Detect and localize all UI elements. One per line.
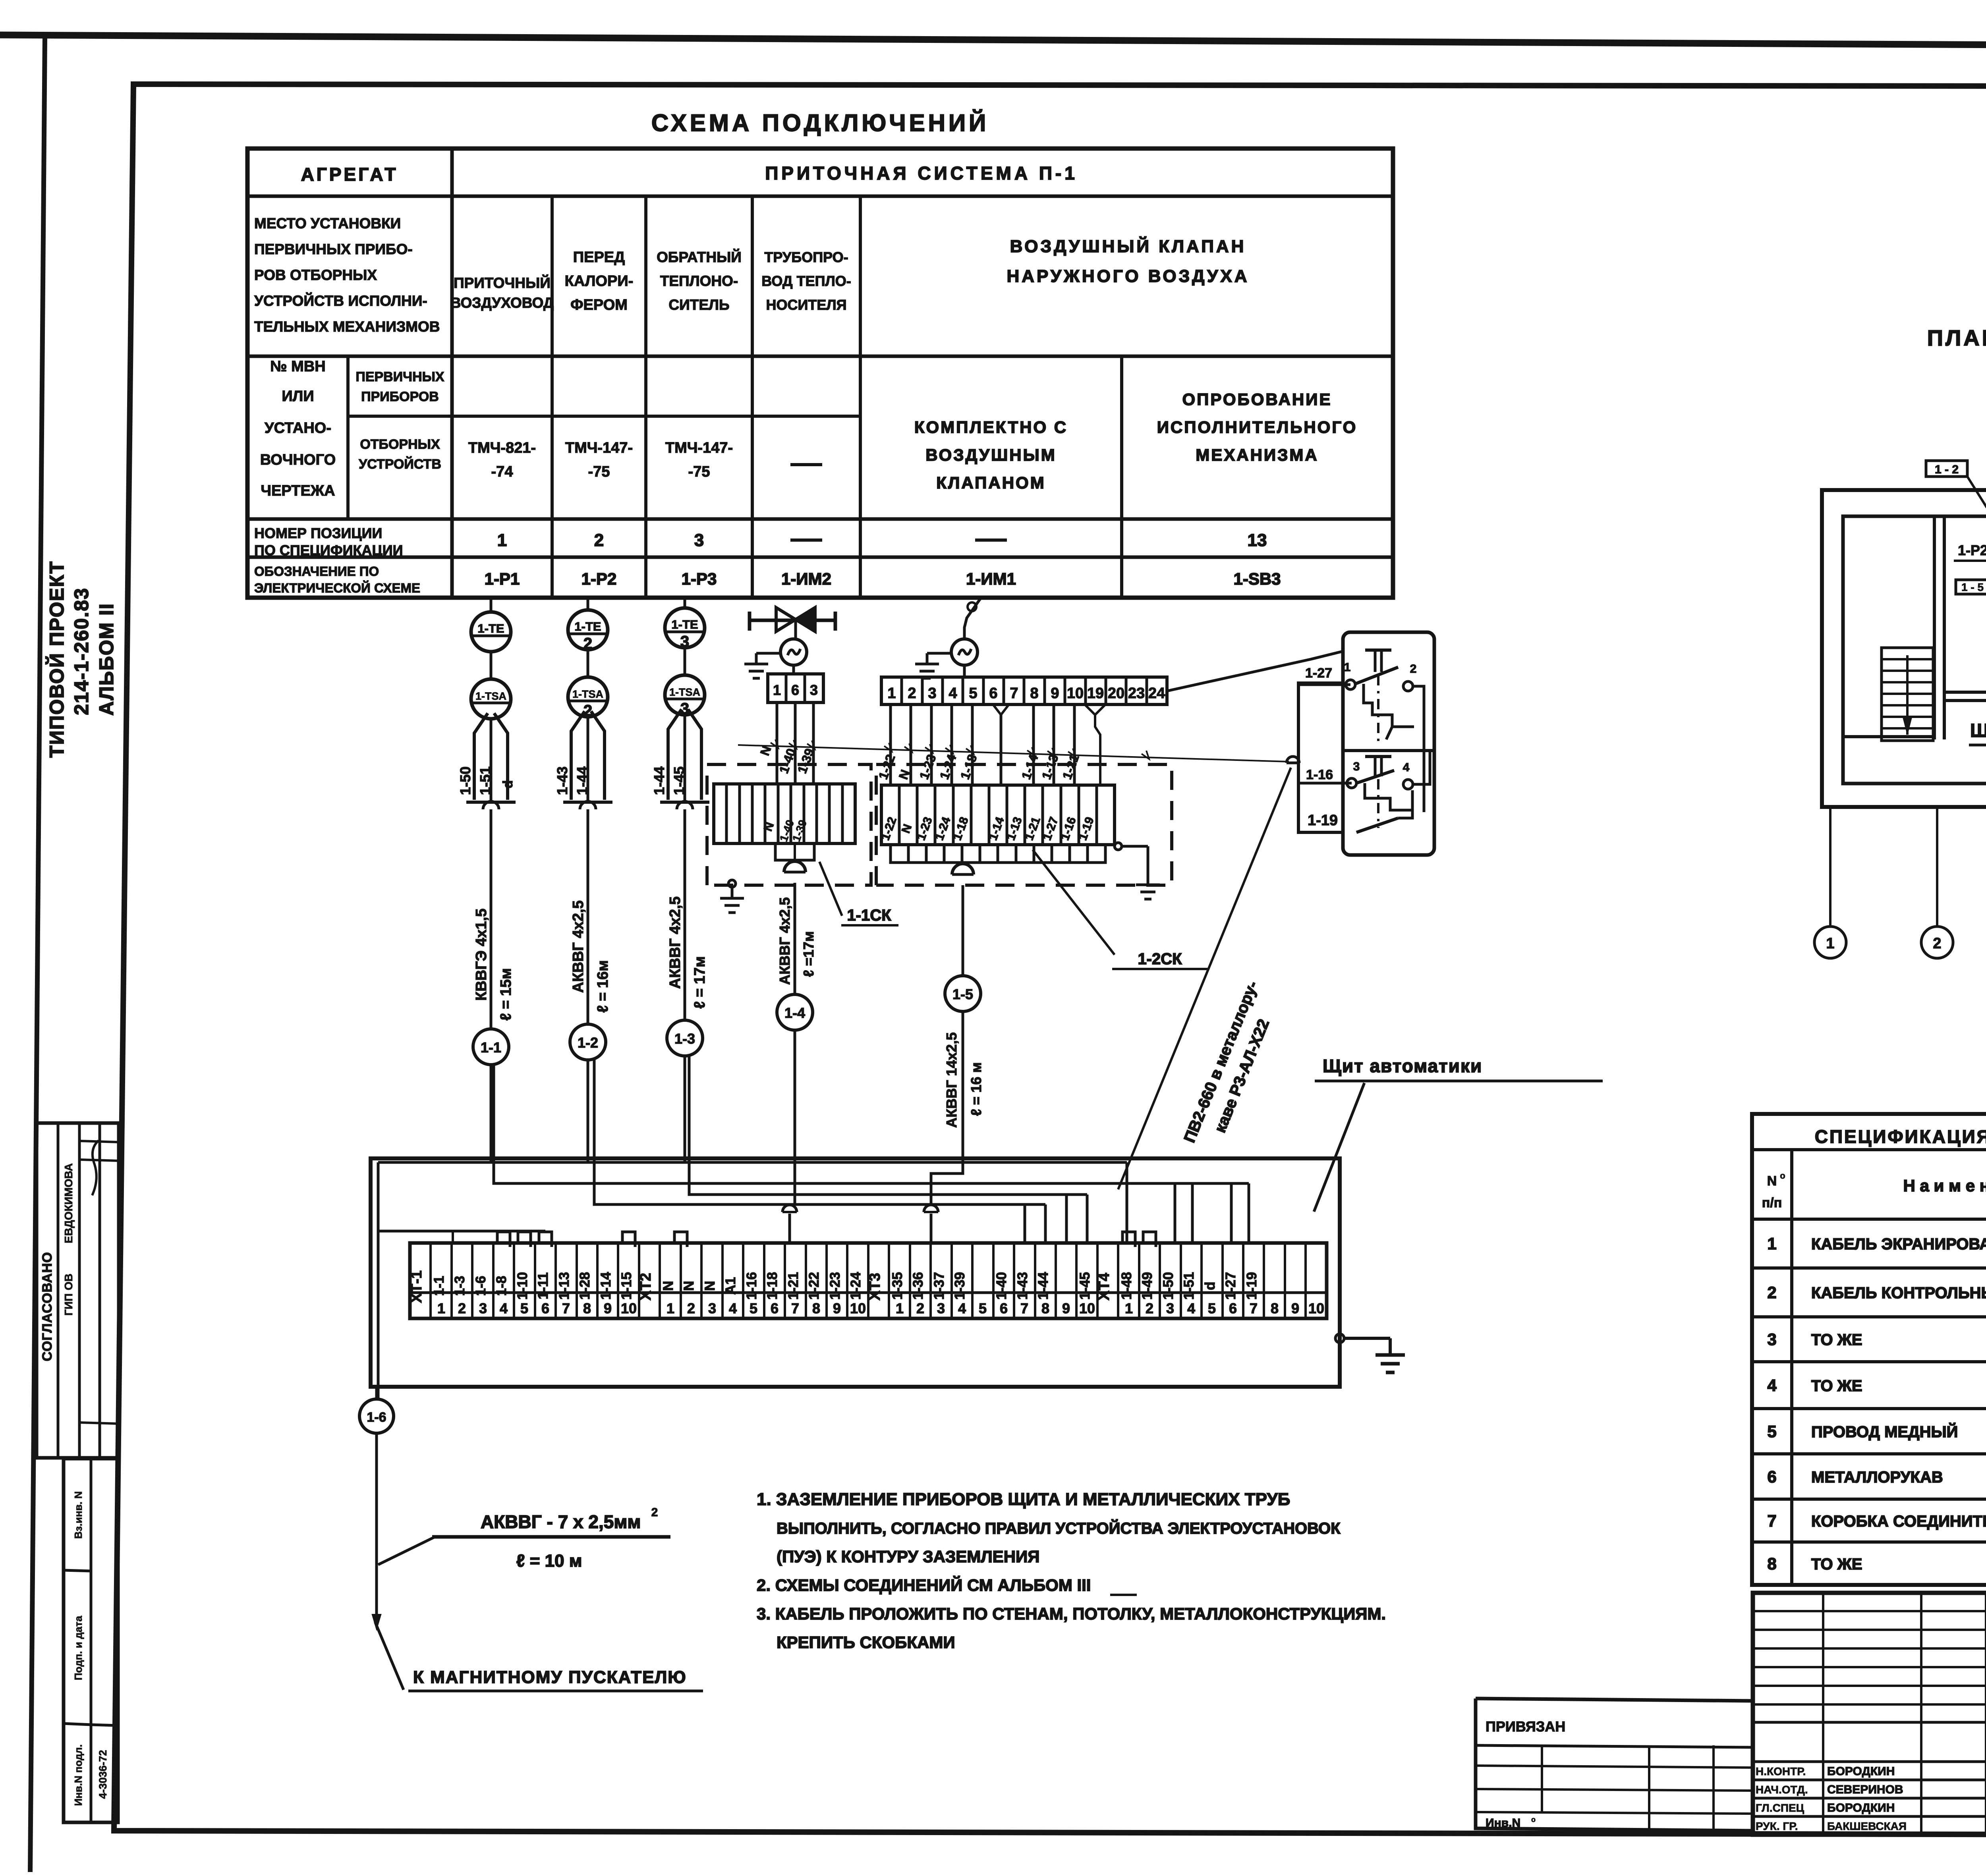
svg-text:ПЛАН М 1 : 100: ПЛАН М 1 : 100: [1927, 325, 1986, 350]
svg-text:1-35: 1-35: [890, 1272, 905, 1300]
pressure element upper: [1355, 650, 1414, 747]
panel terminal strip outline: [408, 1243, 1327, 1318]
svg-text:1: 1: [497, 531, 507, 550]
svg-text:1-14: 1-14: [598, 1272, 614, 1300]
dashed enclosure 1-1SK: [707, 764, 871, 885]
svg-text:2: 2: [458, 1300, 466, 1316]
svg-text:1-ТSА: 1-ТSА: [669, 686, 700, 698]
svg-text:3: 3: [1767, 1330, 1776, 1349]
svg-text:9: 9: [1291, 1300, 1299, 1316]
svg-text:4: 4: [949, 685, 957, 702]
svg-text:1-40: 1-40: [994, 1272, 1009, 1300]
sheet left edge line: [30, 37, 45, 1872]
tab branch bus: [378, 1231, 545, 1243]
svg-text:ПЕРЕД: ПЕРЕД: [573, 249, 625, 266]
svg-text:4: 4: [1767, 1376, 1777, 1395]
svg-text:6: 6: [771, 1300, 779, 1316]
ground at actuator 1: [744, 653, 780, 678]
svg-text:БОРОДКИН: БОРОДКИН: [1827, 1765, 1895, 1778]
svg-text:ЧЕРТЕЖА: ЧЕРТЕЖА: [261, 483, 335, 499]
svg-text:9: 9: [833, 1300, 841, 1316]
svg-text:1-SВ3: 1-SВ3: [1233, 569, 1281, 588]
plan stairs: [1882, 648, 1933, 741]
svg-text:1-45: 1-45: [1077, 1272, 1093, 1300]
svg-text:N: N: [702, 1281, 718, 1291]
svg-text:1: 1: [1826, 935, 1834, 952]
svg-text:Н а и м е н о в а н и е: Н а и м е н о в а н и е: [1903, 1176, 1986, 1195]
strip top tabs: [497, 1232, 1156, 1247]
svg-text:20: 20: [1108, 685, 1124, 702]
svg-text:ГИП ОВ: ГИП ОВ: [62, 1274, 75, 1316]
svg-text:5: 5: [750, 1300, 757, 1316]
notes text block: [757, 1490, 1386, 1652]
svg-text:6: 6: [541, 1300, 549, 1316]
svg-text:1-ТЕ: 1-ТЕ: [671, 618, 698, 631]
svg-text:КЛАПАНОМ: КЛАПАНОМ: [936, 473, 1045, 492]
svg-text:К МАГНИТНОМУ ПУСКАТЕЛЮ: К МАГНИТНОМУ ПУСКАТЕЛЮ: [413, 1668, 687, 1687]
label Shchit avtomatiki with leader: [1314, 1056, 1603, 1212]
spec table outline and grid: [1752, 1114, 1986, 1585]
svg-text:7: 7: [562, 1300, 570, 1316]
plan label 1-2 box with leader: [1926, 461, 1986, 561]
pressure element lower: [1356, 757, 1412, 832]
header table rows3-4 values: [468, 390, 1357, 492]
svg-text:АЛЬБОМ II: АЛЬБОМ II: [95, 603, 118, 716]
svg-text:ТРУБОПРО-: ТРУБОПРО-: [764, 249, 848, 265]
wire and circle 1-6 below panel: [359, 1387, 394, 1619]
svg-text:Н.КОНТР.: Н.КОНТР.: [1756, 1765, 1806, 1778]
svg-text:АКВВГ 14х2,5: АКВВГ 14х2,5: [943, 1033, 960, 1128]
svg-text:МЕХАНИЗМА: МЕХАНИЗМА: [1196, 446, 1319, 464]
svg-text:КАБЕЛЬ ЭКРАНИРОВАННЫЙ: КАБЕЛЬ ЭКРАНИРОВАННЫЙ: [1811, 1235, 1986, 1253]
svg-text:РОВ ОТБОРНЫХ: РОВ ОТБОРНЫХ: [254, 267, 377, 283]
svg-text:КОРОБКА СОЕДИНИТЕЛЬНАЯ: КОРОБКА СОЕДИНИТЕЛЬНАЯ: [1811, 1513, 1986, 1530]
svg-text:1-ТЕ: 1-ТЕ: [574, 620, 601, 633]
svg-text:1-44: 1-44: [1036, 1272, 1051, 1300]
svg-text:ТО ЖЕ: ТО ЖЕ: [1811, 1331, 1862, 1349]
svg-text:2: 2: [594, 531, 604, 550]
svg-text:1-ТSА: 1-ТSА: [572, 688, 603, 700]
svg-text:6: 6: [1767, 1467, 1776, 1486]
header table row1 text: [301, 163, 1078, 185]
svg-text:4: 4: [500, 1300, 508, 1316]
svg-text:1 - 2: 1 - 2: [1935, 463, 1959, 476]
svg-text:1-1: 1-1: [481, 1039, 501, 1056]
svg-text:ℓ = 16 м: ℓ = 16 м: [968, 1062, 984, 1116]
svg-text:N: N: [1767, 1173, 1777, 1189]
wire actuator2 to strip cell5: [963, 665, 966, 677]
svg-text:1-19: 1-19: [1308, 812, 1338, 829]
svg-text:СХЕМА ПОДКЛЮЧЕНИЙ: СХЕМА ПОДКЛЮЧЕНИЙ: [651, 110, 989, 136]
svg-text:-75: -75: [688, 463, 710, 480]
svg-text:4: 4: [729, 1300, 737, 1316]
routing wire from cable 1-2 to XT3: [594, 1060, 1045, 1243]
svg-text:1-23: 1-23: [827, 1272, 843, 1300]
svg-text:НАЧ.ОТД.: НАЧ.ОТД.: [1756, 1783, 1808, 1796]
svg-text:СОГЛАСОВАНО: СОГЛАСОВАНО: [40, 1252, 55, 1361]
svg-text:1-27: 1-27: [1305, 666, 1332, 681]
svg-text:НАРУЖНОГО ВОЗДУХА: НАРУЖНОГО ВОЗДУХА: [1007, 266, 1249, 286]
ground at 1-2SK right: [1115, 843, 1160, 899]
arrow to magnetic starter: [373, 1615, 703, 1691]
svg-text:ТИПОВОЙ ПРОЕКТ: ТИПОВОЙ ПРОЕКТ: [45, 561, 68, 758]
svg-text:ПО СПЕЦИФИКАЦИИ: ПО СПЕЦИФИКАЦИИ: [254, 542, 403, 558]
pipe with valve 1-IM2: [750, 608, 835, 639]
svg-text:7: 7: [791, 1300, 799, 1316]
svg-text:1-10: 1-10: [515, 1272, 530, 1300]
svg-text:9: 9: [1062, 1300, 1070, 1316]
svg-text:ПРОВОД МЕДНЫЙ: ПРОВОД МЕДНЫЙ: [1811, 1422, 1958, 1441]
svg-text:1-22: 1-22: [806, 1272, 822, 1300]
routing wire from cable 1-5 with gland: [924, 1168, 963, 1243]
svg-text:1-15: 1-15: [619, 1272, 634, 1300]
svg-text:1-51: 1-51: [477, 766, 493, 795]
plan corridor wall horizontal: [1944, 692, 1986, 701]
svg-text:1-44: 1-44: [574, 766, 590, 795]
svg-text:1-19: 1-19: [1244, 1272, 1260, 1300]
svg-text:10: 10: [1067, 685, 1084, 702]
panel ground right: [1335, 1334, 1405, 1372]
svg-text:ИСПОЛНИТЕЛЬНОГО: ИСПОЛНИТЕЛЬНОГО: [1157, 418, 1358, 436]
svg-text:ИЛИ: ИЛИ: [282, 388, 314, 405]
svg-text:1-4: 1-4: [784, 1005, 805, 1021]
plan building outer wall: [1822, 490, 1986, 807]
svg-text:(ПУЭ) К КОНТУРУ ЗАЗЕМЛЕНИЯ: (ПУЭ) К КОНТУРУ ЗАЗЕМЛЕНИЯ: [777, 1547, 1039, 1566]
svg-text:d: d: [500, 780, 516, 789]
ground at 1-1SK left: [720, 880, 744, 913]
svg-text:7: 7: [1767, 1511, 1776, 1530]
svg-text:№ МВН: № МВН: [270, 358, 325, 375]
riser pair XT4 1-50 1-51: [1175, 1183, 1192, 1243]
svg-text:2: 2: [1933, 935, 1941, 952]
svg-text:ХТ3: ХТ3: [867, 1273, 883, 1301]
svg-text:-75: -75: [588, 463, 610, 480]
svg-text:4: 4: [1187, 1300, 1195, 1316]
routing wire from cable 1-1 to XT4 risers: [494, 1065, 1249, 1183]
label 1-2SK with leader: [1033, 850, 1207, 969]
svg-text:АКВВГ 4х2,5: АКВВГ 4х2,5: [777, 897, 793, 985]
plan building inner wall: [1843, 516, 1986, 784]
svg-text:ОТБОРНЫХ: ОТБОРНЫХ: [360, 437, 440, 452]
svg-text:3: 3: [708, 1300, 716, 1316]
svg-text:1-51: 1-51: [1181, 1272, 1197, 1300]
svg-text:ℓ = 16м: ℓ = 16м: [595, 960, 611, 1013]
svg-text:ℓ = 15м: ℓ = 15м: [498, 968, 514, 1021]
label 1-1SK with leader: [819, 862, 898, 925]
svg-text:9: 9: [604, 1300, 612, 1316]
plan label Shchit avtomatiki: [1969, 711, 1986, 745]
header table row6 text: [254, 564, 1281, 595]
svg-text:-74: -74: [491, 463, 513, 480]
svg-text:6: 6: [989, 685, 997, 702]
svg-text:ПРИТОЧНЫЙ: ПРИТОЧНЫЙ: [454, 274, 551, 291]
internal wires right side: [1413, 686, 1430, 812]
wires from 1|6|3 down to 1-1SK with labels N 1-40 1-39: [757, 703, 817, 784]
svg-text:1-Р2: 1-Р2: [1958, 542, 1986, 558]
plan corridor wall vertical: [1843, 516, 1944, 739]
temperature sensor chain 1-TE3/1-TSA3 with cable 1-3: [651, 598, 709, 1162]
ground at actuator 2: [915, 653, 951, 678]
header table row2 columns text: [450, 236, 1250, 313]
svg-text:1-6: 1-6: [367, 1410, 386, 1425]
svg-text:ТМЧ-147-: ТМЧ-147-: [565, 440, 633, 456]
cable 1-4 from 1-1SK: [777, 883, 817, 1162]
panel top bus wire from 1-6 riser: [378, 1162, 1127, 1243]
svg-text:1: 1: [773, 682, 781, 698]
svg-text:ПЕРВИЧНЫХ: ПЕРВИЧНЫХ: [355, 369, 444, 384]
svg-text:1-1СК: 1-1СК: [847, 907, 891, 924]
svg-text:1: 1: [1125, 1300, 1133, 1316]
tabs and cable gland under 1-1SK: [775, 843, 814, 872]
svg-text:3: 3: [1166, 1300, 1174, 1316]
routing wire from cable 1-3 to XT3: [689, 1056, 1087, 1243]
svg-text:Подп. и дата: Подп. и дата: [72, 1615, 84, 1680]
actuator motor circle 2: [951, 639, 978, 665]
svg-text:п/п: п/п: [1762, 1195, 1782, 1210]
svg-text:1-16: 1-16: [744, 1272, 759, 1300]
svg-text:19: 19: [1087, 685, 1104, 702]
svg-text:РУК. ГР.: РУК. ГР.: [1756, 1820, 1798, 1832]
svg-text:1-6: 1-6: [473, 1276, 489, 1296]
sheet top edge line: [0, 35, 1986, 48]
svg-text:ВОЗДУШНЫМ: ВОЗДУШНЫМ: [925, 446, 1056, 464]
svg-text:УСТРОЙСТВ: УСТРОЙСТВ: [359, 456, 441, 472]
svg-text:АКВВГ 4х2,5: АКВВГ 4х2,5: [570, 900, 587, 993]
svg-text:6: 6: [1000, 1300, 1008, 1316]
svg-text:ТМЧ-147-: ТМЧ-147-: [665, 440, 733, 456]
svg-text:ПЕРВИЧНЫХ ПРИБО-: ПЕРВИЧНЫХ ПРИБО-: [254, 241, 413, 257]
svg-text:Щит автоматики: Щит автоматики: [1323, 1056, 1482, 1076]
svg-text:10: 10: [621, 1300, 637, 1316]
svg-text:1-21: 1-21: [786, 1272, 801, 1300]
svg-text:МЕСТО УСТАНОВКИ: МЕСТО УСТАНОВКИ: [254, 215, 401, 232]
svg-text:1-43: 1-43: [1015, 1272, 1030, 1300]
svg-text:8: 8: [1271, 1300, 1279, 1316]
svg-text:N: N: [661, 1281, 676, 1291]
svg-text:3: 3: [928, 685, 936, 702]
svg-text:1-18: 1-18: [765, 1272, 780, 1300]
svg-text:КАБЕЛЬ КОНТРОЛЬНЫЙ: КАБЕЛЬ КОНТРОЛЬНЫЙ: [1811, 1283, 1986, 1302]
svg-text:4-3036-72: 4-3036-72: [97, 1750, 109, 1799]
svg-text:1-44: 1-44: [651, 766, 667, 795]
svg-text:1: 1: [1344, 661, 1351, 674]
svg-text:8: 8: [1030, 685, 1038, 702]
svg-text:5: 5: [1208, 1300, 1216, 1316]
svg-text:1-3: 1-3: [452, 1276, 468, 1296]
svg-text:1: 1: [896, 1300, 904, 1316]
svg-text:10: 10: [1079, 1300, 1095, 1316]
svg-text:ВОЗДУХОВОД: ВОЗДУХОВОД: [450, 295, 554, 311]
svg-text:СЕВЕРИНОВ: СЕВЕРИНОВ: [1827, 1783, 1903, 1796]
svg-text:СПЕЦИФИКАЦИЯ МОНТАЖНЫХ И: СПЕЦИФИКАЦИЯ МОНТАЖНЫХ ИЗДЕЛИЙ: [1815, 1126, 1986, 1147]
svg-text:1 - 5: 1 - 5: [1961, 581, 1984, 593]
cable bundle marker line PV2-660: [738, 739, 1289, 762]
upper terminal strip 1..24: [881, 677, 1167, 704]
rotated label PV2-660 v metallorukave: [1118, 768, 1291, 1189]
svg-text:1-2: 1-2: [578, 1035, 598, 1051]
plan label 1-5 box: [1956, 580, 1986, 604]
svg-text:3: 3: [479, 1300, 487, 1316]
svg-text:1-50: 1-50: [457, 766, 473, 795]
title block outline: [1753, 1593, 1986, 1835]
svg-text:2: 2: [908, 685, 916, 702]
svg-text:ОБРАТНЫЙ: ОБРАТНЫЙ: [657, 249, 742, 265]
contact group pins 1 2: [1344, 661, 1417, 691]
svg-text:СИТЕЛЬ: СИТЕЛЬ: [668, 297, 729, 313]
svg-text:ВЫПОЛНИТЬ, СОГЛАСНО ПРАВИЛ У: ВЫПОЛНИТЬ, СОГЛАСНО ПРАВИЛ УСТРОЙСТВА ЭЛ…: [777, 1519, 1341, 1537]
svg-text:ТЕЛЬНЫХ МЕХАНИЗМОВ: ТЕЛЬНЫХ МЕХАНИЗМОВ: [254, 318, 440, 335]
svg-text:7: 7: [1020, 1300, 1028, 1316]
automation panel outline: [371, 1158, 1340, 1387]
tabs and cable gland under 1-2SK: [891, 845, 1105, 874]
svg-text:1-16: 1-16: [1306, 767, 1333, 782]
svg-text:КРЕПИТЬ СКОБКАМИ: КРЕПИТЬ СКОБКАМИ: [777, 1633, 955, 1652]
svg-text:УСТРОЙСТВ ИСПОЛНИ-: УСТРОЙСТВ ИСПОЛНИ-: [254, 292, 427, 309]
svg-text:ХТ-1: ХТ-1: [408, 1270, 425, 1303]
stamp box SOGLASOVANO group: [37, 1123, 119, 1458]
svg-text:2: 2: [1767, 1283, 1776, 1302]
header table col0 row2 text: [254, 215, 440, 335]
svg-text:МЕТАЛЛОРУКАВ: МЕТАЛЛОРУКАВ: [1811, 1469, 1943, 1486]
svg-text:9: 9: [1051, 685, 1059, 702]
svg-text:1-Р2: 1-Р2: [582, 569, 617, 588]
svg-text:5: 5: [979, 1300, 987, 1316]
title block signature rows text: [1756, 1765, 1907, 1832]
svg-text:ℓ = 17м: ℓ = 17м: [692, 956, 708, 1009]
junction box strip 1-2SK: [879, 785, 1115, 845]
rotated label TIPOVOI PROEKT 214-1-260.83 ALBOM II: [45, 561, 118, 758]
riser wire to circle 1-6: [377, 1162, 380, 1399]
svg-text:А1: А1: [723, 1277, 738, 1295]
svg-text:2: 2: [916, 1300, 924, 1316]
svg-text:Инв.N подл.: Инв.N подл.: [72, 1744, 84, 1806]
svg-text:1-Р3: 1-Р3: [682, 569, 717, 588]
svg-text:5: 5: [520, 1300, 528, 1316]
svg-text:1-27: 1-27: [1223, 1272, 1238, 1300]
svg-text:1-36: 1-36: [910, 1272, 926, 1300]
svg-text:ЕВДОКИМОВА: ЕВДОКИМОВА: [62, 1163, 75, 1243]
svg-text:1: 1: [437, 1300, 445, 1316]
svg-text:АКВВГ - 7 х 2,5мм: АКВВГ - 7 х 2,5мм: [481, 1511, 641, 1532]
svg-text:7: 7: [1010, 685, 1018, 702]
svg-text:ОБОЗНАЧЕНИЕ ПО: ОБОЗНАЧЕНИЕ ПО: [254, 564, 379, 579]
plan label 1-R2: [1954, 542, 1986, 561]
svg-text:4: 4: [1403, 761, 1410, 774]
svg-text:8: 8: [583, 1300, 591, 1316]
svg-text:ТО ЖЕ: ТО ЖЕ: [1811, 1556, 1862, 1573]
svg-text:1-5: 1-5: [952, 986, 973, 1002]
svg-text:1: 1: [667, 1300, 674, 1316]
svg-text:2: 2: [1410, 662, 1417, 676]
svg-text:1-13: 1-13: [556, 1272, 572, 1300]
svg-text:НОСИТЕЛЯ: НОСИТЕЛЯ: [766, 297, 846, 313]
svg-text:Вз.инв. N: Вз.инв. N: [72, 1491, 84, 1539]
svg-text:2: 2: [687, 1300, 695, 1316]
svg-text:1-28: 1-28: [577, 1272, 593, 1300]
header table row5 text: [254, 525, 1267, 558]
svg-text:ТЕПЛОНО-: ТЕПЛОНО-: [660, 273, 738, 289]
svg-text:23: 23: [1128, 685, 1145, 702]
svg-text:АКВВГ 4х2,5: АКВВГ 4х2,5: [667, 896, 684, 989]
svg-text:УСТАНО-: УСТАНО-: [265, 420, 331, 436]
svg-text:N: N: [681, 1281, 697, 1291]
svg-text:1-39: 1-39: [952, 1272, 968, 1300]
wire horizontal into box: [1287, 685, 1352, 783]
svg-text:1-8: 1-8: [494, 1276, 509, 1296]
svg-text:1-24: 1-24: [848, 1272, 864, 1300]
svg-text:4: 4: [958, 1300, 966, 1316]
svg-text:d: d: [1202, 1282, 1218, 1290]
stamp box Vz.inv.N / Podp. i data / Inv.N podl.: [64, 1459, 118, 1822]
contact group pins 3 4: [1347, 760, 1413, 789]
svg-text:ℓ = 10 м: ℓ = 10 м: [516, 1551, 582, 1571]
svg-text:Инв.N: Инв.N: [1486, 1816, 1520, 1830]
svg-text:КАЛОРИ-: КАЛОРИ-: [565, 273, 634, 290]
svg-text:1-ТSА: 1-ТSА: [475, 690, 506, 702]
svg-text:1-11: 1-11: [535, 1272, 551, 1299]
svg-text:ХТ2: ХТ2: [638, 1273, 654, 1301]
svg-text:НОМЕР ПОЗИЦИИ: НОМЕР ПОЗИЦИИ: [254, 525, 382, 541]
svg-text:1-1: 1-1: [431, 1276, 447, 1296]
svg-text:1-3: 1-3: [674, 1031, 695, 1047]
svg-text:1-45: 1-45: [671, 766, 687, 795]
svg-text:3: 3: [694, 531, 704, 550]
svg-text:10: 10: [1308, 1300, 1324, 1316]
connection box left terminal rect: [1298, 683, 1343, 832]
junction box strip 1-1SK: [714, 784, 855, 843]
svg-text:2: 2: [651, 1506, 658, 1519]
svg-text:3: 3: [810, 682, 818, 698]
plan title PLAN M 1:100: [1927, 325, 1986, 350]
svg-text:3: 3: [937, 1300, 945, 1316]
svg-text:ВОЧНОГО: ВОЧНОГО: [260, 452, 336, 468]
svg-text:1-48: 1-48: [1119, 1272, 1134, 1300]
svg-text:КВВГЭ 4х1,5: КВВГЭ 4х1,5: [473, 909, 490, 1001]
svg-text:ФЕРОМ: ФЕРОМ: [570, 297, 628, 313]
svg-text:КОМПЛЕКТНО С: КОМПЛЕКТНО С: [914, 418, 1068, 436]
dashed enclosure 1-2SK: [876, 764, 1172, 885]
svg-text:1-49: 1-49: [1140, 1272, 1155, 1300]
svg-text:АГРЕГАТ: АГРЕГАТ: [301, 164, 398, 185]
svg-text:Щит автоматики: Щит автоматики: [1970, 720, 1986, 741]
svg-text:ТМЧ-821-: ТМЧ-821-: [468, 440, 536, 456]
terminal header 1|6|3: [768, 665, 823, 703]
svg-text:10: 10: [850, 1300, 866, 1316]
cable 1-5 from 1-2SK: [943, 885, 984, 1168]
wire from table to actuator 2 with junction circle: [964, 598, 981, 639]
svg-text:8: 8: [812, 1300, 820, 1316]
svg-text:5: 5: [1767, 1422, 1776, 1441]
svg-text:БОРОДКИН: БОРОДКИН: [1827, 1801, 1895, 1814]
temperature sensor chain 1-TE2/1-TSA2 with cable 1-2: [554, 598, 612, 1162]
svg-text:6: 6: [791, 682, 799, 698]
plan axis circles 1 2 3: [1814, 807, 1986, 958]
svg-text:214-1-260.83: 214-1-260.83: [70, 587, 93, 715]
svg-text:ХТ4: ХТ4: [1096, 1273, 1113, 1301]
svg-text:ОПРОБОВАНИЕ: ОПРОБОВАНИЕ: [1182, 390, 1332, 409]
routing wire from cable 1-4 with gland: [782, 1162, 797, 1243]
header table grid: [247, 149, 1393, 598]
header table col0 rows3-4 text: [260, 358, 444, 499]
svg-text:8: 8: [1767, 1554, 1776, 1573]
svg-text:ЭЛЕКТРИЧЕСКОЙ СХЕМЕ: ЭЛЕКТРИЧЕСКОЙ СХЕМЕ: [254, 580, 420, 595]
actuator motor circle (valve drive): [780, 639, 807, 665]
spec table headers: [1762, 1166, 1986, 1210]
svg-text:1-50: 1-50: [1161, 1272, 1176, 1300]
svg-text:ВОЗДУШНЫЙ КЛАПАН: ВОЗДУШНЫЙ КЛАПАН: [1010, 236, 1246, 256]
title block left grid: [1753, 1593, 1986, 1835]
svg-text:7: 7: [1250, 1300, 1258, 1316]
